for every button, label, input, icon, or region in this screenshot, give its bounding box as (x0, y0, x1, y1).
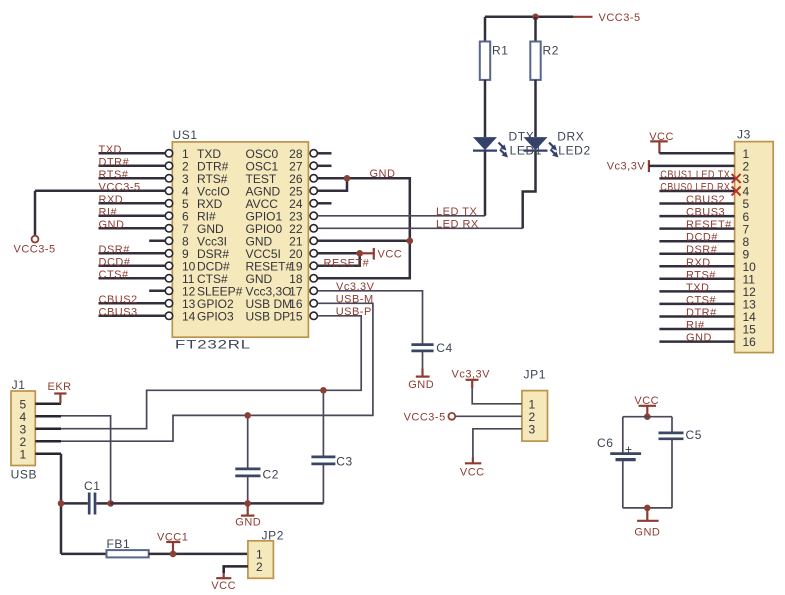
wire net DCD# to US1 pin 10 (99, 265, 166, 268)
wire net RTS# to J3 pin 11 (659, 278, 734, 281)
wire USB D+ : J1 pin3 to US1 pin 15 (61, 316, 361, 429)
svg-text:EKR: EKR (48, 381, 72, 393)
svg-text:J1: J1 (12, 378, 26, 392)
power port VCC (JP2) (223, 573, 225, 578)
ferrite bead FB1 (107, 550, 149, 557)
wire GND pin 21 (318, 240, 410, 243)
wire net CTS# to US1 pin 11 (99, 277, 166, 280)
svg-text:J3: J3 (737, 128, 751, 142)
wire net CBUS1 LED TX to J3 pin 3 (659, 177, 734, 180)
wire FB1 to JP2 pin 1 (149, 553, 248, 556)
svg-text:RI#: RI# (99, 206, 118, 218)
svg-text:RTS#: RTS# (686, 269, 716, 281)
wire RESET# pin 19 (318, 253, 360, 265)
US1 pin 8 (Vcc3I) (165, 237, 172, 244)
wire stub US1 pin 28 (318, 152, 332, 155)
ground at C2 (247, 503, 249, 515)
wire net RXD to US1 pin 5 (99, 202, 166, 205)
svg-text:GND: GND (370, 168, 396, 180)
US1 pin 20 (VCC5I) (310, 250, 317, 257)
svg-text:RXD: RXD (686, 257, 711, 269)
svg-text:VCC3-5: VCC3-5 (404, 411, 446, 423)
US1 pin 1 (TXD) (165, 150, 172, 157)
svg-text:RTS#: RTS# (99, 169, 129, 181)
US1 pin 2 (DTR#) (165, 162, 172, 169)
svg-text:C4: C4 (436, 341, 453, 355)
wire net CBUS2 to J3 pin 5 (659, 202, 734, 205)
svg-text:C5: C5 (686, 428, 703, 442)
US1 pin 16 (USB DM) (310, 300, 317, 307)
wire C5/C6 bottom rail (623, 507, 672, 509)
US1 pin 10 (DCD#) (165, 262, 172, 269)
wire net RI# to US1 pin 6 (99, 215, 166, 218)
svg-text:DCD#: DCD# (99, 256, 131, 268)
svg-text:LED RX: LED RX (436, 219, 479, 231)
US1 pin 11 (CTS#) (165, 275, 172, 282)
US1 pin 22 (GPIO0) (310, 225, 317, 232)
no-ERC cross J3 pin 3 (732, 174, 741, 183)
wire net VCC3-5 to US1 pin 4 (35, 190, 165, 193)
US1 pin 13 (GPIO2) (165, 300, 172, 307)
wire stub US1 pin 24 (318, 202, 332, 205)
svg-text:3: 3 (529, 422, 536, 436)
svg-text:RXD: RXD (99, 194, 124, 206)
power port VCC3-5 (top right) (573, 16, 593, 18)
svg-text:JP1: JP1 (524, 367, 546, 381)
wire net TXD to US1 pin 1 (99, 152, 166, 155)
wire net CBUS0 LED RX to J3 pin 4 (659, 190, 734, 193)
power port VCC3-5 (left) (34, 191, 37, 236)
wire J1 pin 4 to GND rail (61, 416, 111, 504)
wire net DSR# to J3 pin 9 (659, 252, 734, 255)
svg-text:CBUS0 LED RX: CBUS0 LED RX (660, 182, 730, 194)
svg-text:CBUS2: CBUS2 (686, 194, 725, 206)
connector JP2 body (248, 541, 274, 579)
svg-text:LED TX: LED TX (436, 206, 477, 218)
junction C2 top / D- wire (244, 412, 251, 419)
wire AGND branch pin 25 (318, 178, 347, 191)
wire LED2 cathode jog (523, 150, 536, 228)
US1 pin 23 (GPIO1) (310, 212, 317, 219)
capacitor C2 (247, 415, 249, 469)
J1 pin 2 (35, 440, 61, 443)
ground at C5/C6 (646, 508, 648, 521)
wire net DTR# to US1 pin 2 (99, 165, 166, 168)
svg-text:CBUS2: CBUS2 (99, 294, 138, 306)
connector J1 (USB) body (11, 391, 35, 466)
wire net LED RX pin 22 to LED2 (318, 227, 523, 229)
wire R1 to LED1 (484, 80, 487, 137)
wire net Vc3,3V pin 17 to C4 (318, 291, 423, 345)
US1 pin 18 (GND) (310, 275, 317, 282)
US1 pin 28 (OSC0) (310, 150, 317, 157)
capacitor C4 (411, 343, 433, 346)
wire GND node to FB1 (61, 553, 107, 556)
junction VCC / C5 / C6 (644, 413, 651, 420)
svg-text:GND: GND (634, 526, 660, 538)
svg-text:CBUS3: CBUS3 (99, 306, 138, 318)
capacitor C1 (61, 502, 88, 505)
svg-text:US1: US1 (173, 128, 198, 142)
svg-text:RESET#: RESET# (324, 257, 370, 269)
svg-text:15: 15 (289, 310, 303, 324)
IC US1 FT232RL body (172, 142, 308, 337)
US1 pin 19 (RESET#) (310, 262, 317, 269)
power port VCC (JP1 pin3) (472, 458, 474, 464)
wire net TXD to J3 pin 12 (659, 290, 734, 293)
svg-text:VCC: VCC (460, 466, 485, 478)
svg-text:DTR#: DTR# (686, 307, 717, 319)
junction GND loop / pin 21 (407, 238, 414, 245)
svg-text:GND: GND (99, 219, 125, 231)
US1 pin 9 (DSR#) (165, 250, 172, 257)
wire LED1 cathode down (484, 150, 487, 215)
svg-text:USB DP: USB DP (246, 310, 291, 324)
svg-text:CBUS3: CBUS3 (686, 207, 725, 219)
svg-text:DTR#: DTR# (99, 156, 130, 168)
svg-text:C3: C3 (336, 455, 353, 469)
wire GND loop pins 26-21-18 (318, 178, 410, 278)
svg-text:TXD: TXD (686, 282, 710, 294)
svg-text:1: 1 (20, 447, 27, 461)
wire net DCD# to J3 pin 8 (659, 240, 734, 243)
wire net GND to US1 pin 7 (99, 227, 166, 230)
svg-text:VCC3-5: VCC3-5 (599, 12, 641, 24)
junction C1/J1.4/GND rail (107, 500, 114, 507)
wire net CTS# to J3 pin 13 (659, 303, 734, 306)
svg-text:+: + (625, 443, 632, 457)
svg-text:Vc3,3V: Vc3,3V (607, 161, 646, 173)
wire C5/C6 top rail (623, 416, 672, 418)
US1 pin 4 (VccIO) (165, 187, 172, 194)
junction C3 top / D+ wire (320, 387, 327, 394)
svg-text:R1: R1 (492, 44, 509, 58)
wire net DTR# to J3 pin 14 (659, 315, 734, 318)
LED1 (DTX) (473, 137, 497, 150)
resistor R1 (480, 42, 490, 80)
wire JP2 pin 2 to VCC (224, 566, 248, 573)
resistor R2 (530, 42, 540, 80)
svg-text:GND: GND (408, 379, 434, 391)
US1 pin 12 (SLEEP#) (165, 287, 172, 294)
svg-text:JP2: JP2 (262, 528, 284, 542)
svg-text:FB1: FB1 (107, 537, 131, 551)
svg-text:GND: GND (686, 332, 712, 344)
US1 pin 27 (OSC1) (310, 162, 317, 169)
J1 pin 5 (35, 402, 61, 405)
US1 pin 7 (GND) (165, 225, 172, 232)
svg-text:VCC3-5: VCC3-5 (99, 181, 141, 193)
capacitor C3 (322, 390, 324, 457)
junction C2 bottom / GND (244, 500, 251, 507)
svg-text:RESET#: RESET# (686, 219, 732, 231)
US1 pin 17 (Vcc3,3O) (310, 287, 317, 294)
wire GND rail (111, 502, 324, 505)
power port VCC (pin 20) (360, 252, 374, 254)
US1 pin 3 (RTS#) (165, 175, 172, 182)
svg-text:C1: C1 (84, 479, 101, 493)
US1 pin 24 (AVCC) (310, 200, 317, 207)
svg-text:DCD#: DCD# (686, 232, 718, 244)
power port VCC3-5 (JP1 pin2) (448, 413, 455, 420)
J1 pin 4 (35, 415, 61, 418)
svg-text:16: 16 (743, 335, 757, 349)
svg-text:DRX: DRX (557, 130, 584, 144)
capacitor C6 (polarized) (622, 417, 624, 454)
US1 pin 5 (RXD) (165, 200, 172, 207)
US1 pin 14 (GPIO3) (165, 312, 172, 319)
svg-text:VCC: VCC (211, 580, 236, 592)
ground at C4 (422, 351, 424, 369)
no-ERC cross J3 pin 4 (732, 187, 741, 196)
wire J1 pin1 down to C1/FB1 node (60, 454, 63, 554)
wire net CBUS3 to US1 pin 14 (99, 315, 166, 318)
US1 pin 15 (USB DP) (310, 312, 317, 319)
svg-text:2: 2 (256, 560, 263, 574)
svg-text:USB: USB (11, 467, 37, 481)
svg-text:CTS#: CTS# (99, 269, 130, 281)
junction VCC1 (170, 551, 177, 558)
svg-text:DSR#: DSR# (686, 244, 718, 256)
svg-text:FT232RL: FT232RL (175, 338, 251, 352)
wire USB D- : J1 pin2 to US1 pin 16 (61, 303, 373, 441)
wire Vc3,3V to J3 pin 2 (649, 165, 735, 168)
wire net RESET# to J3 pin 7 (659, 227, 734, 230)
wire net DSR# to US1 pin 9 (99, 252, 166, 255)
wire to R2 (534, 17, 537, 42)
US1 pin 6 (RI#) (165, 212, 172, 219)
svg-text:GPIO3: GPIO3 (197, 310, 234, 324)
wire net GND to J3 pin 16 (659, 340, 734, 343)
US1 pin 26 (TEST) (310, 175, 317, 182)
svg-text:Vc3,3V: Vc3,3V (336, 281, 375, 293)
svg-text:LED2: LED2 (558, 144, 590, 158)
wire net CBUS2 to US1 pin 13 (99, 302, 166, 305)
wire JP1 pin 3 to VCC (473, 429, 522, 458)
wire VCC5I pin 20 (318, 252, 360, 255)
junction J1.1/C1/FB1 (58, 500, 65, 507)
svg-text:RI#: RI# (686, 320, 705, 332)
svg-text:CTS#: CTS# (686, 294, 717, 306)
wire stub US1 pin 27 (318, 165, 332, 168)
svg-text:GND: GND (235, 517, 261, 529)
svg-text:VCC: VCC (378, 248, 403, 260)
wire VCC3-5 to JP1 pin 2 (456, 415, 522, 417)
junction VCC3-5 / R2 (532, 13, 539, 20)
J1 pin 1 (35, 452, 61, 455)
wire C1 right (96, 502, 110, 505)
wire net RXD to J3 pin 10 (659, 265, 734, 268)
svg-text:14: 14 (182, 310, 196, 324)
J1 pin 3 (35, 427, 61, 430)
wire net LED TX pin 23 to LED1 (318, 215, 485, 217)
junction pin26/pin25 (344, 175, 351, 182)
capacitor C5 (671, 417, 673, 433)
wire VCC3-5 top rail (485, 16, 573, 19)
svg-text:TXD: TXD (99, 144, 123, 156)
svg-text:C6: C6 (597, 436, 614, 450)
svg-text:R2: R2 (543, 44, 560, 58)
junction pin20/pin19/VCC (356, 250, 363, 257)
wire stub US1 pin 8 (149, 240, 165, 243)
wire Vc3,3V to JP1 pin 1 (472, 388, 522, 404)
svg-text:DSR#: DSR# (99, 244, 131, 256)
connector JP1 body (522, 391, 548, 442)
wire net RTS# to US1 pin 3 (99, 177, 166, 180)
US1 pin 25 (AGND) (310, 187, 317, 194)
wire VCC to J3 pin 1 (659, 152, 734, 155)
svg-text:CBUS1 LED TX: CBUS1 LED TX (660, 169, 730, 181)
LED2 (DRX) (524, 137, 548, 150)
wire net CBUS3 to J3 pin 6 (659, 215, 734, 218)
wire R2 to LED2 (534, 80, 537, 137)
wire to R1 (484, 17, 487, 42)
connector J3 body (735, 142, 774, 353)
svg-text:C2: C2 (263, 468, 280, 482)
junction GND / C5 / C6 (644, 505, 651, 512)
svg-text:VCC3-5: VCC3-5 (14, 244, 56, 256)
wire stub US1 pin 12 (149, 290, 165, 293)
US1 pin 21 (GND) (310, 237, 317, 244)
wire net RI# to J3 pin 15 (659, 328, 734, 331)
